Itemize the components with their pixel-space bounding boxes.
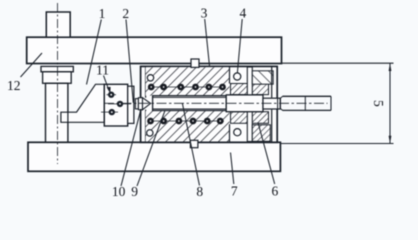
tip washer 10 xyxy=(135,99,138,109)
push rod wide collar xyxy=(226,95,263,112)
separator plate xyxy=(247,67,252,142)
column xyxy=(46,83,68,142)
washer under top plate xyxy=(41,66,73,71)
spring coil sections lower row xyxy=(147,118,224,125)
column edge over wedge xyxy=(67,112,69,122)
spring coil sections upper row xyxy=(148,84,226,91)
housing top tab screw xyxy=(191,59,199,67)
push rod neck xyxy=(263,98,280,109)
housing bottom tab screw xyxy=(190,140,198,147)
bolt B1 xyxy=(107,92,117,98)
dimension line 5 xyxy=(389,63,391,143)
svg-text:8: 8 xyxy=(196,184,203,199)
svg-text:1: 1 xyxy=(99,6,106,21)
leader 4 xyxy=(237,19,242,73)
bottom chamber hatch xyxy=(146,111,230,142)
end cap step lines xyxy=(229,67,231,84)
svg-text:6: 6 xyxy=(272,183,279,198)
clamp block xyxy=(104,84,127,126)
svg-text:7: 7 xyxy=(231,183,238,198)
right gland block lower xyxy=(252,125,270,142)
leader 6 xyxy=(258,123,275,185)
leader 8 xyxy=(182,103,199,186)
svg-text:2: 2 xyxy=(122,6,129,21)
svg-text:3: 3 xyxy=(201,6,208,21)
bolt B2 xyxy=(108,101,131,107)
spring upper row connector line xyxy=(148,86,225,88)
base plate 7 xyxy=(28,142,280,171)
svg-text:12: 12 xyxy=(7,78,21,93)
shaft centerline xyxy=(104,102,328,104)
svg-text:9: 9 xyxy=(131,184,138,199)
leader 2 xyxy=(126,20,133,103)
housing right inner wall line xyxy=(271,66,273,97)
tip holder xyxy=(138,98,142,110)
housing inner left wall line xyxy=(145,66,147,97)
left cap screw lower xyxy=(147,130,153,136)
push rod chamfer lines xyxy=(153,96,227,98)
housing body outline xyxy=(141,66,278,142)
column centerline xyxy=(57,3,59,164)
bottom extension line xyxy=(281,143,394,145)
leader 10 xyxy=(121,109,141,186)
top extension line xyxy=(282,62,394,64)
left cap screw upper xyxy=(147,75,153,81)
svg-text:10: 10 xyxy=(112,184,126,199)
leader 11 with arrow xyxy=(104,76,110,91)
right gland block upper xyxy=(252,71,273,84)
clamp wedge 1 xyxy=(61,84,104,122)
outer rod xyxy=(280,96,331,110)
svg-text:11: 11 xyxy=(96,62,109,77)
cone tip xyxy=(143,98,151,110)
top plate 12 xyxy=(27,37,282,63)
leader 3 xyxy=(205,19,210,67)
bushing sleeve lower xyxy=(231,112,269,124)
leader 12 xyxy=(21,53,43,77)
nut body xyxy=(43,72,72,84)
clamp side plate xyxy=(128,86,134,123)
leader 9 xyxy=(137,111,165,187)
svg-text:4: 4 xyxy=(240,6,247,21)
right cap screw upper xyxy=(234,73,241,80)
bushing sleeve upper xyxy=(231,84,269,95)
leader 1 xyxy=(87,20,102,85)
top chamber hatch xyxy=(146,67,230,95)
dim arrow top xyxy=(389,63,392,71)
svg-text:5: 5 xyxy=(371,100,386,107)
right cap screw lower xyxy=(234,129,241,136)
push rod main section xyxy=(153,96,227,111)
bolt B3 xyxy=(101,109,118,115)
leader 7 xyxy=(231,153,234,185)
post on top plate xyxy=(46,12,70,37)
spring lower row connector line xyxy=(148,120,224,122)
dim arrow bottom xyxy=(389,136,392,144)
